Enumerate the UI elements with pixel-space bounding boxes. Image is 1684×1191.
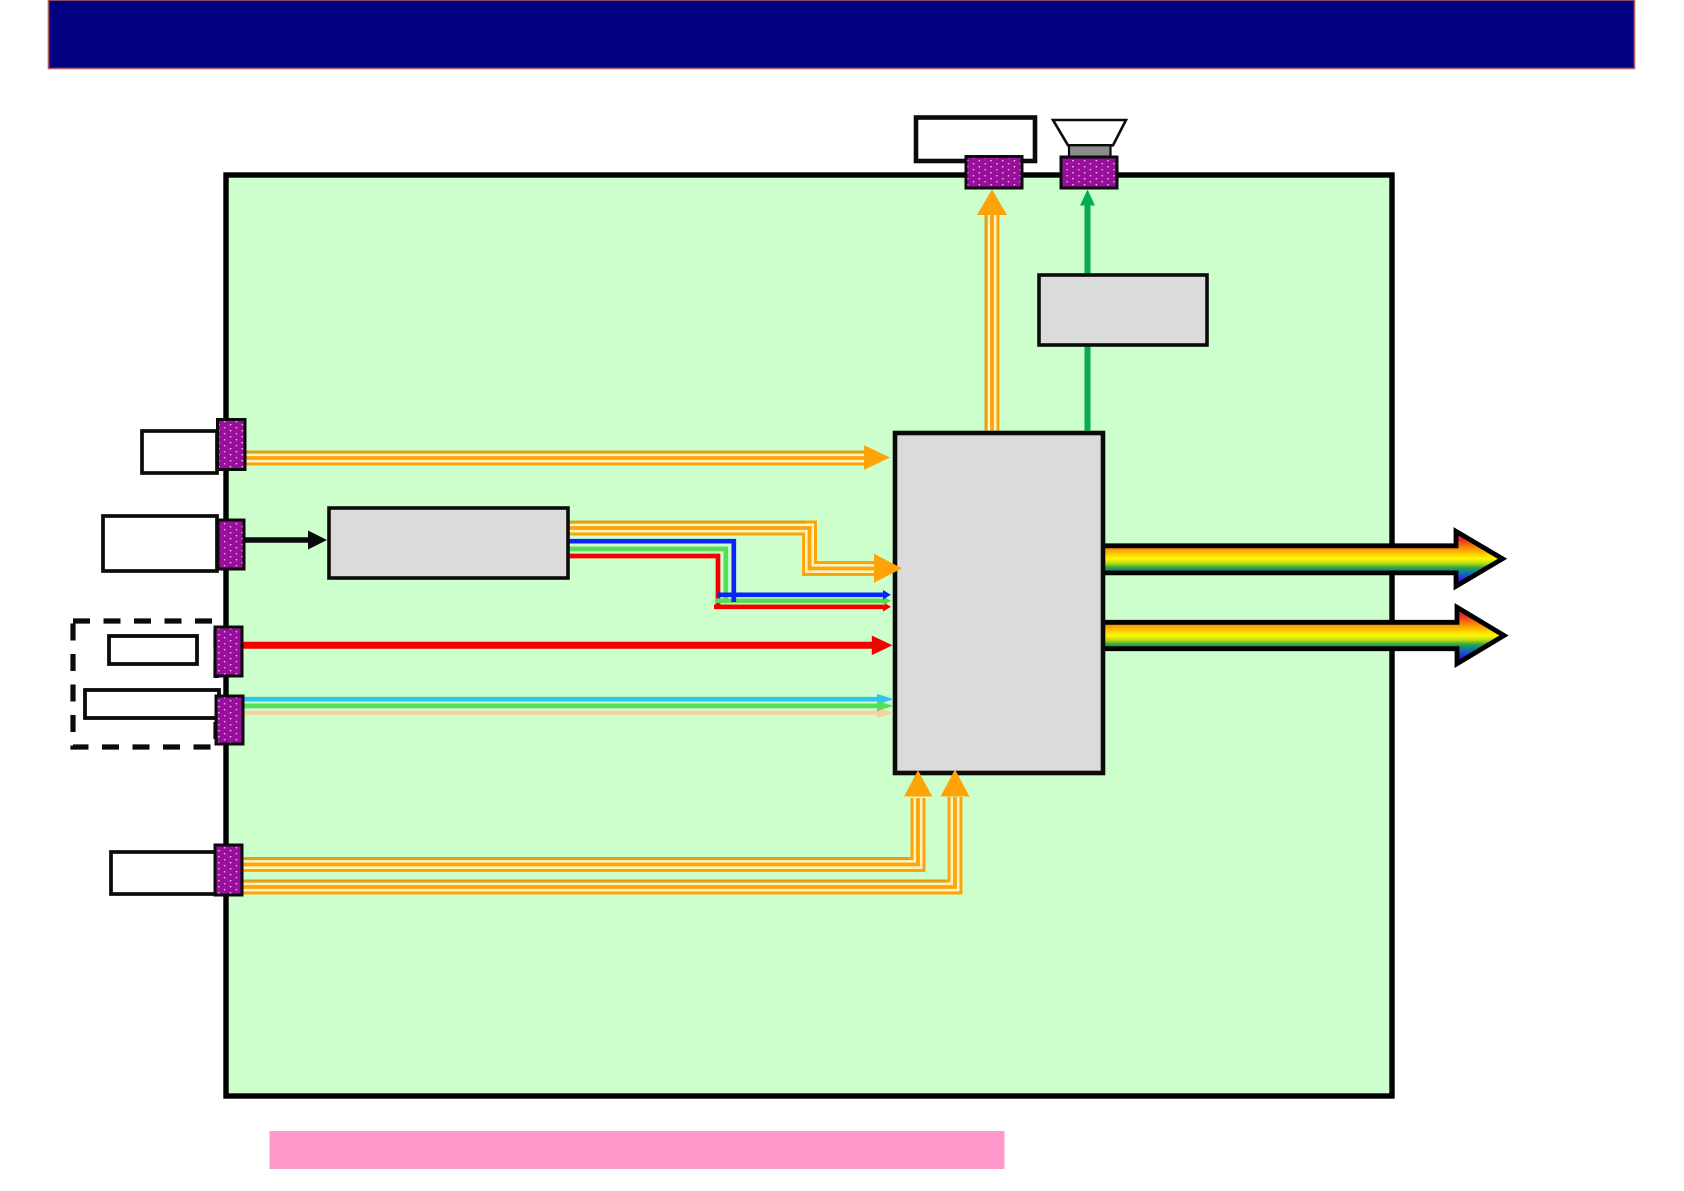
wire: tan line from connector J6 to U1	[243, 708, 894, 718]
box: optional input 2	[85, 690, 219, 718]
wire: orange bus from U1 up to connector J1	[977, 189, 1007, 430]
output arrow 1 (video out, rainbow)	[1098, 531, 1503, 586]
title bar	[49, 0, 1635, 69]
speaker base	[1069, 145, 1111, 157]
wire: orange bus B from connector J7 to U1 bottom	[242, 769, 970, 890]
box: input device 2	[103, 516, 217, 571]
connector J2	[1061, 157, 1117, 188]
output arrow 2 (video out, rainbow)	[1098, 607, 1504, 663]
dashed group box (optional inputs)	[73, 621, 216, 747]
wire: cyan line from connector J6 to U1	[243, 694, 894, 705]
wire: orange bus A from connector J7 to U1 bottom	[242, 770, 932, 867]
wire: green line from U2 to U1	[566, 549, 891, 606]
wire: blue line from U2 to U1	[566, 541, 891, 602]
box: optional input 1	[109, 636, 197, 664]
footer highlight bar	[270, 1131, 1005, 1169]
connector J4	[218, 520, 244, 569]
connector J3	[218, 420, 246, 470]
wire: red line from U2 to U1	[566, 556, 891, 612]
connector J7	[215, 845, 242, 895]
connector J1	[966, 157, 1022, 189]
box: input device 1	[142, 431, 217, 473]
board outline (green PCB)	[226, 175, 1392, 1096]
wire: black arrow from connector J4 to U2	[244, 531, 327, 550]
wire: orange bus from U2 to U1 (Z route)	[566, 522, 902, 583]
IC U3 (amplifier)	[1039, 275, 1207, 345]
connector J6	[216, 696, 243, 744]
speaker horn	[1053, 120, 1126, 145]
wire: orange bus from connector J3 to U1	[244, 445, 890, 470]
box: LCD module	[916, 118, 1035, 162]
connector J5	[215, 627, 242, 676]
wire: green audio line from U1 through U3 to connector J2	[1080, 190, 1095, 431]
box: input device 3	[111, 852, 218, 894]
IC U2 (decoder)	[329, 508, 568, 578]
wire: red line from connector J5 to U1	[242, 636, 892, 656]
wire: light-green line from connector J6 to U1	[243, 701, 894, 711]
IC U1 (main processor)	[895, 433, 1103, 773]
